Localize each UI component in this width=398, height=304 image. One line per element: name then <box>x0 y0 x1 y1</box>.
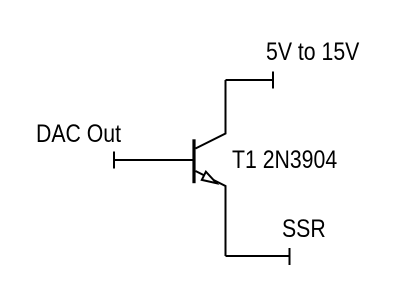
terminal 5V to 15V <box>272 72 274 89</box>
terminal DAC Out <box>113 152 115 169</box>
transistor T1 base bar <box>192 139 195 183</box>
label DAC Out <box>36 122 121 147</box>
wire emitter to SSR <box>226 255 290 257</box>
label SSR <box>282 217 326 242</box>
wire base <box>114 159 194 161</box>
label T1 2N3904 <box>232 148 337 173</box>
transistor T1 collector stroke <box>196 80 226 149</box>
transistor T1 emitter arrow <box>202 172 217 184</box>
terminal SSR <box>289 248 291 265</box>
transistor T1 emitter stroke <box>196 171 226 256</box>
label 5V to 15V <box>266 40 359 65</box>
wire collector to supply <box>226 79 274 81</box>
